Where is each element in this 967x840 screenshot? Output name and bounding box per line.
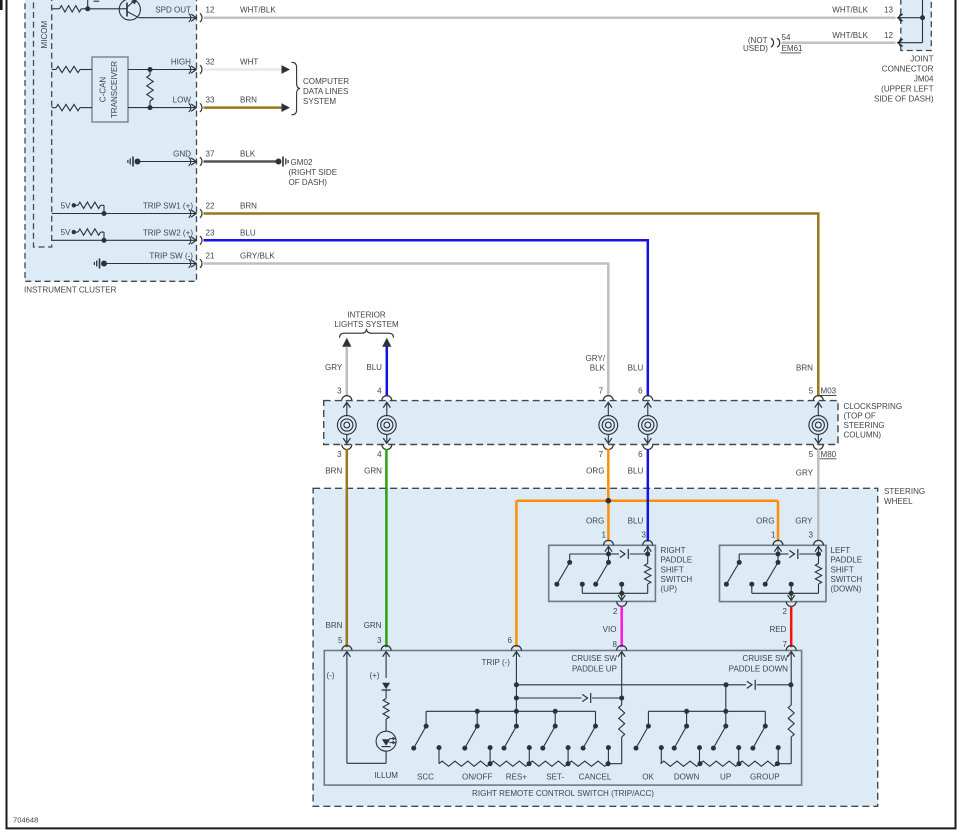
svg-text:HIGH: HIGH [171, 58, 191, 67]
svg-text:BLU: BLU [366, 363, 382, 372]
svg-text:32: 32 [206, 58, 215, 67]
svg-text:21: 21 [206, 252, 215, 261]
svg-text:(+): (+) [370, 671, 380, 680]
node base stub [85, 6, 90, 11]
wire BLK to GM02 [204, 160, 277, 163]
wire RED paddle down [790, 607, 793, 648]
wire right bus riser [725, 685, 727, 712]
clockspring coil 5 [817, 402, 819, 416]
svg-text:(RIGHT SIDE: (RIGHT SIDE [289, 168, 338, 177]
svg-text:GRY: GRY [796, 469, 814, 478]
switch ON/OFF contact [476, 711, 478, 726]
svg-text:6: 6 [508, 636, 513, 645]
right paddle bus wire [570, 553, 609, 555]
left paddle bus wire [739, 553, 778, 555]
wire TRIP SW2 [52, 239, 196, 241]
connector pin 32 HIGH [189, 65, 191, 74]
left paddle pin3 bump [814, 540, 824, 545]
svg-text:RES+: RES+ [506, 772, 528, 781]
wire ORG to right paddle pin1 [607, 501, 610, 542]
left paddle switch2 arm [765, 562, 778, 584]
svg-text:M03: M03 [821, 387, 837, 396]
connector JM04 pin 13 [899, 13, 901, 22]
switch CANCEL contact [595, 711, 597, 726]
wire ORG to trip minus [515, 501, 518, 648]
svg-text:WHT/BLK: WHT/BLK [832, 6, 868, 15]
connector pin 33 LOW [189, 103, 191, 112]
clockspring box M03/M80 [324, 401, 838, 445]
switch SCC mate contact [437, 745, 442, 750]
clockspring coil 7 [607, 402, 609, 416]
switch UP contact [725, 711, 727, 726]
resistor R7 (illum) [383, 699, 389, 720]
left paddle switch1 arm [726, 562, 739, 584]
svg-text:6: 6 [638, 450, 643, 459]
svg-text:TRIP SW1 (+): TRIP SW1 (+) [143, 202, 193, 211]
node chain6 [737, 761, 742, 766]
svg-text:TRIP SW2 (+): TRIP SW2 (+) [143, 228, 193, 237]
wire TRIP SW (-) [107, 263, 196, 265]
right paddle contact to resistor [609, 553, 620, 555]
svg-text:LEFT: LEFT [831, 546, 851, 555]
switch ON/OFF mate contact [488, 745, 493, 750]
switch SCC contact [425, 711, 427, 726]
svg-text:C-CAN: C-CAN [99, 77, 108, 103]
svg-text:UP: UP [720, 772, 731, 781]
clockspring bottom pin 7 [603, 445, 613, 450]
node chain2 [527, 761, 532, 766]
svg-text:GRY: GRY [795, 517, 813, 526]
right paddle switch2 mate contact [619, 582, 624, 587]
resistor R4 (CAN termination) [149, 70, 151, 76]
svg-text:STEERING: STEERING [884, 487, 925, 496]
svg-text:(UP): (UP) [661, 585, 678, 594]
splice symbol EM61 [771, 38, 774, 47]
svg-text:OF DASH): OF DASH) [289, 178, 328, 187]
svg-text:INTERIOR: INTERIOR [347, 310, 386, 319]
svg-text:CLOCKSPRING: CLOCKSPRING [844, 402, 903, 411]
svg-text:3: 3 [337, 387, 342, 396]
switch box top pin 7 RED [786, 646, 796, 651]
svg-text:5: 5 [338, 636, 343, 645]
switch RES+ arm [504, 726, 516, 748]
svg-text:BLU: BLU [628, 517, 644, 526]
arrow computer data high [282, 65, 291, 74]
svg-text:4: 4 [377, 387, 382, 396]
wire BRN trip sw1 to clockspring 5 [204, 214, 819, 397]
svg-text:LOW: LOW [173, 96, 192, 105]
svg-text:3: 3 [809, 531, 814, 540]
right paddle switch2 contact [608, 554, 610, 562]
connector JM04 pin 12 [899, 38, 901, 47]
wire WHT/BLK pin12 to JM04 13 [204, 16, 896, 19]
left paddle switch1 mate contact [749, 582, 754, 587]
svg-text:SIDE OF DASH): SIDE OF DASH) [874, 95, 934, 104]
svg-text:BLU: BLU [240, 228, 256, 237]
wire cruise paddle down resistor branch [790, 652, 792, 705]
wire HIGH [128, 69, 196, 71]
clockspring coil 4 [386, 402, 388, 416]
switch box top pin 6 ORG [511, 645, 521, 650]
svg-text:TRIP (-): TRIP (-) [482, 658, 511, 667]
C-CAN transceiver box U2 [92, 57, 128, 122]
svg-text:(DOWN): (DOWN) [831, 585, 862, 594]
clockspring top pin 5 [813, 396, 823, 401]
svg-text:3: 3 [377, 636, 382, 645]
svg-text:3: 3 [337, 450, 342, 459]
node chain1 [488, 761, 493, 766]
svg-text:BLK: BLK [240, 150, 256, 159]
clockspring top pin 4 [382, 396, 392, 401]
svg-text:PADDLE UP: PADDLE UP [572, 665, 617, 674]
ground GM02 [276, 159, 282, 165]
svg-text:33: 33 [206, 96, 215, 105]
svg-text:(TOP OF: (TOP OF [844, 411, 876, 420]
svg-text:SPD OUT: SPD OUT [155, 6, 191, 15]
left paddle pin3 arrow [815, 546, 822, 551]
right paddle switch1 arm [557, 562, 570, 584]
svg-text:SYSTEM: SYSTEM [303, 97, 336, 106]
left switch bus [426, 710, 595, 712]
svg-text:37: 37 [206, 150, 215, 159]
wire paddle up link [516, 697, 581, 699]
svg-text:3: 3 [642, 531, 647, 540]
left paddle contact to resistor [778, 553, 789, 555]
right paddle bottom bus [582, 592, 647, 594]
svg-text:ORG: ORG [756, 517, 774, 526]
connector pin 22 [189, 209, 191, 218]
svg-text:EM61: EM61 [782, 44, 804, 53]
svg-text:ON/OFF: ON/OFF [462, 772, 492, 781]
wire BLU to clockspring 4 [386, 347, 389, 397]
right paddle pin2 arrow [621, 593, 623, 600]
svg-text:COLUMN): COLUMN) [844, 430, 882, 439]
wire GRY to clockspring 3 [346, 347, 349, 397]
node high junction [148, 67, 153, 72]
switch ON/OFF arm [465, 726, 477, 748]
wire base to transistor [89, 8, 127, 10]
svg-text:RIGHT: RIGHT [661, 546, 686, 555]
svg-text:54: 54 [782, 33, 791, 42]
switch CANCEL mate contact [606, 745, 611, 750]
svg-text:TRIP SW (-): TRIP SW (-) [149, 252, 193, 261]
left paddle resistor [818, 554, 820, 564]
switch SET- mate contact [566, 745, 571, 750]
wire JM04 vertical [922, 0, 924, 43]
node chain3 [566, 761, 571, 766]
left paddle pin1 arrow [774, 546, 781, 551]
svg-text:GND: GND [173, 150, 191, 159]
clockspring top pin 3 [342, 396, 352, 401]
clockspring bottom pin 5 [813, 445, 823, 450]
svg-text:INSTRUMENT CLUSTER: INSTRUMENT CLUSTER [24, 285, 117, 294]
right paddle resistor [647, 554, 649, 564]
svg-text:BLU: BLU [628, 364, 644, 373]
wire BRN clockspring3 to switch pin5 [346, 449, 349, 647]
svg-text:COMPUTER: COMPUTER [303, 77, 349, 86]
svg-text:5V: 5V [61, 201, 71, 210]
svg-text:GRY: GRY [325, 363, 343, 372]
wire WHT/BLK EM61 to JM04 12 [782, 41, 896, 44]
switch DOWN contact [686, 711, 688, 726]
arrow interior lights GRY [342, 338, 351, 347]
svg-text:WHT/BLK: WHT/BLK [832, 31, 868, 40]
node trip sw1 [102, 211, 107, 216]
svg-text:CRUISE SW: CRUISE SW [571, 654, 617, 663]
right paddle switch1 mate contact [580, 582, 585, 587]
ground (trip sw return) [101, 261, 107, 267]
joint connector JM04 box [901, 0, 932, 51]
svg-text:BRN: BRN [796, 364, 813, 373]
resistor chain R12 RES+-SET- [529, 761, 568, 766]
svg-text:JOINT: JOINT [910, 55, 933, 64]
switch GROUP mate contact [776, 745, 781, 750]
svg-text:PADDLE: PADDLE [661, 556, 693, 565]
svg-text:4: 4 [377, 450, 382, 459]
switch OK contact [647, 711, 649, 726]
wire BLU clockspring6 to right paddle pin3 [647, 449, 650, 542]
left paddle pin2 arrow [790, 593, 792, 600]
svg-text:WHT: WHT [240, 58, 258, 67]
wire LOW [128, 107, 196, 109]
brace computer data lines [292, 62, 301, 115]
svg-text:7: 7 [599, 387, 604, 396]
svg-text:WHEEL: WHEEL [884, 497, 913, 506]
switch GROUP arm [753, 726, 765, 748]
svg-text:1: 1 [602, 531, 607, 540]
switch OK arm [636, 726, 648, 748]
svg-text:BRN: BRN [240, 202, 257, 211]
resistor R9 (paddle down) [788, 705, 794, 737]
svg-text:WHT/BLK: WHT/BLK [240, 6, 276, 15]
switch CANCEL arm [583, 726, 595, 748]
svg-text:2: 2 [613, 607, 618, 616]
resistor R1 (SPD OUT base) [52, 8, 60, 10]
svg-text:STEERING: STEERING [844, 421, 885, 430]
wire GRY/BLK trip sw to clockspring 7 [204, 264, 609, 397]
wire ORG to left paddle pin1 [777, 501, 780, 542]
node trip lower [514, 696, 519, 701]
wire inside JM04 pin13 [898, 17, 923, 19]
wire ORG horizontal [516, 499, 778, 502]
wire BRN to computer data lines [204, 106, 282, 109]
resistor R2 (C-CAN high) [52, 69, 56, 71]
diode D1 [382, 683, 390, 690]
svg-text:12: 12 [206, 6, 215, 15]
svg-text:1: 1 [771, 531, 776, 540]
svg-text:RED: RED [770, 625, 787, 634]
svg-text:GRN: GRN [364, 466, 382, 475]
clockspring bottom pin 3 [342, 445, 352, 450]
resistor chain R16 UP-GROUP [739, 761, 777, 766]
svg-text:(UPPER LEFT: (UPPER LEFT [881, 85, 933, 94]
switch DOWN mate contact [697, 745, 702, 750]
wire SPD OUT [139, 17, 196, 19]
left paddle switch1 contact [738, 554, 740, 562]
svg-text:BRN: BRN [240, 96, 257, 105]
arrow interior lights BLU [382, 338, 391, 347]
svg-text:ILLUM: ILLUM [374, 771, 398, 780]
svg-text:12: 12 [884, 31, 893, 40]
svg-text:VIO: VIO [603, 625, 617, 634]
svg-text:JM04: JM04 [914, 75, 934, 84]
wire cruise paddle up resistor branch [621, 652, 623, 705]
transistor Q1 [119, 0, 140, 20]
svg-text:704648: 704648 [13, 816, 38, 825]
switch UP mate contact [736, 745, 741, 750]
wire WHT to computer data lines [204, 68, 282, 71]
svg-text:ORG: ORG [586, 517, 604, 526]
wire BLU trip sw2 to clockspring 6 [204, 240, 648, 396]
steering wheel box [313, 488, 878, 806]
resistor chain R15 DOWN-UP [700, 761, 739, 766]
svg-text:6: 6 [638, 387, 643, 396]
svg-text:7: 7 [599, 450, 604, 459]
resistor R8 (paddle up) [619, 705, 625, 737]
svg-text:SHIFT: SHIFT [831, 565, 854, 574]
switch OK mate contact [659, 745, 664, 750]
switch SET- contact [554, 711, 556, 726]
right paddle pin3 arrow [644, 546, 651, 551]
svg-text:GRY/BLK: GRY/BLK [240, 252, 275, 261]
right paddle pin1 arrow [605, 546, 612, 551]
svg-text:PADDLE DOWN: PADDLE DOWN [729, 665, 789, 674]
svg-text:22: 22 [206, 202, 215, 211]
svg-text:SHIFT: SHIFT [661, 565, 684, 574]
svg-text:5V: 5V [61, 228, 71, 237]
clockspring top pin 6 [643, 396, 653, 401]
switch box top pin 3 GRN [381, 646, 391, 651]
right remote control switch box [324, 651, 801, 786]
switch box top pin 8 VIO [617, 646, 627, 651]
right paddle pin2 bump [617, 601, 627, 606]
switch SET- arm [543, 726, 555, 748]
svg-text:(-): (-) [327, 671, 335, 680]
connector pin 37 GND [189, 157, 191, 166]
svg-text:USED): USED) [743, 44, 768, 53]
right paddle pin1 bump [604, 540, 614, 545]
resistor chain R11 ON/OFF-RES+ [490, 761, 529, 766]
svg-text:SET-: SET- [546, 772, 564, 781]
switch SCC arm [414, 726, 426, 748]
right switch bus [648, 710, 765, 712]
wire GRN clockspring4 to switch pin3 [385, 449, 388, 647]
wire illum minus [346, 652, 348, 764]
switch RES+ contact [515, 711, 517, 726]
right paddle switch1 contact [569, 554, 571, 562]
brace interior lights [340, 329, 394, 338]
wire paddle down link [516, 684, 746, 686]
svg-text:DOWN: DOWN [674, 772, 700, 781]
left paddle pin2 bump [786, 601, 796, 606]
clockspring coil 6 [647, 402, 649, 416]
node chain7 [775, 761, 780, 766]
wire GRY clockspring5 to left paddle pin3 [817, 449, 820, 542]
MICOM box [34, 0, 52, 247]
svg-text:BRN: BRN [325, 466, 342, 475]
svg-text:BLU: BLU [628, 466, 644, 475]
svg-text:GM02: GM02 [291, 158, 313, 167]
svg-text:8: 8 [613, 640, 618, 649]
switch GROUP contact [764, 711, 766, 726]
svg-text:GROUP: GROUP [750, 772, 780, 781]
svg-text:OK: OK [642, 772, 654, 781]
svg-text:GRY/: GRY/ [585, 354, 605, 363]
wire VIO paddle up [620, 607, 623, 648]
wire ORG clockspring7 down [607, 449, 610, 501]
wire TRIP SW1 [52, 213, 196, 215]
wire trip minus vertical [515, 652, 517, 712]
ground (cluster internal) [135, 159, 141, 165]
node ORG junction [606, 498, 612, 504]
svg-text:TRANSCEIVER: TRANSCEIVER [110, 61, 119, 118]
right paddle pin3 bump [643, 540, 653, 545]
switch RES+ mate contact [527, 745, 532, 750]
node chain5 [698, 761, 703, 766]
connector pin 12 SPD OUT [189, 13, 191, 22]
svg-text:13: 13 [884, 6, 893, 15]
right paddle switch2 arm [596, 562, 609, 584]
clockspring bottom pin 4 [382, 445, 392, 450]
svg-text:SWITCH: SWITCH [831, 575, 863, 584]
node trip upper [514, 682, 519, 687]
wire GND [141, 161, 196, 163]
svg-text:BLK: BLK [590, 364, 606, 373]
left paddle bottom bus [752, 592, 819, 594]
resistor R3 (C-CAN low) [52, 107, 56, 109]
resistor R5 (trip sw1 pullup) [76, 204, 78, 206]
resistor R6 (trip sw2 pullup) [76, 231, 78, 233]
svg-text:CANCEL: CANCEL [579, 772, 612, 781]
svg-text:CONNECTOR: CONNECTOR [882, 65, 934, 74]
svg-text:M80: M80 [821, 450, 837, 459]
node trip sw2 [102, 238, 107, 243]
resistor chain R10 SCC-ON/OFF [439, 761, 490, 766]
left paddle switch2 contact [777, 554, 779, 562]
instrument cluster box [25, 0, 197, 281]
svg-text:PADDLE: PADDLE [831, 556, 863, 565]
clockspring top pin 7 [603, 396, 613, 401]
node low junction [148, 105, 153, 110]
switch box top pin 5 BRN [342, 646, 352, 651]
switch DOWN arm [674, 726, 686, 748]
left paddle pin1 bump [773, 540, 783, 545]
arrow computer data low [282, 103, 291, 112]
right paddle shift switch box [549, 545, 656, 601]
left paddle switch2 mate contact [789, 582, 794, 587]
node chain4 [606, 761, 611, 766]
svg-text:MICOM: MICOM [40, 20, 49, 48]
svg-text:BRN: BRN [326, 621, 343, 630]
svg-text:5: 5 [809, 450, 814, 459]
svg-text:DATA LINES: DATA LINES [303, 87, 348, 96]
svg-text:SWITCH: SWITCH [661, 575, 693, 584]
svg-text:23: 23 [206, 228, 215, 237]
left paddle shift switch box [720, 545, 827, 601]
clockspring coil 3 [346, 402, 348, 416]
connector pin 21 [189, 259, 191, 268]
connector pin 23 [189, 236, 191, 245]
svg-text:CRUISE SW: CRUISE SW [742, 654, 788, 663]
svg-text:5: 5 [809, 387, 814, 396]
node JM04 junction [920, 15, 925, 20]
resistor chain R14 OK-DOWN [661, 761, 700, 766]
svg-text:SCC: SCC [417, 772, 434, 781]
svg-text:RIGHT REMOTE CONTROL SWITCH (T: RIGHT REMOTE CONTROL SWITCH (TRIP/ACC) [472, 789, 654, 798]
svg-text:LIGHTS SYSTEM: LIGHTS SYSTEM [334, 320, 399, 329]
svg-text:2: 2 [783, 607, 788, 616]
svg-text:GRN: GRN [364, 621, 382, 630]
